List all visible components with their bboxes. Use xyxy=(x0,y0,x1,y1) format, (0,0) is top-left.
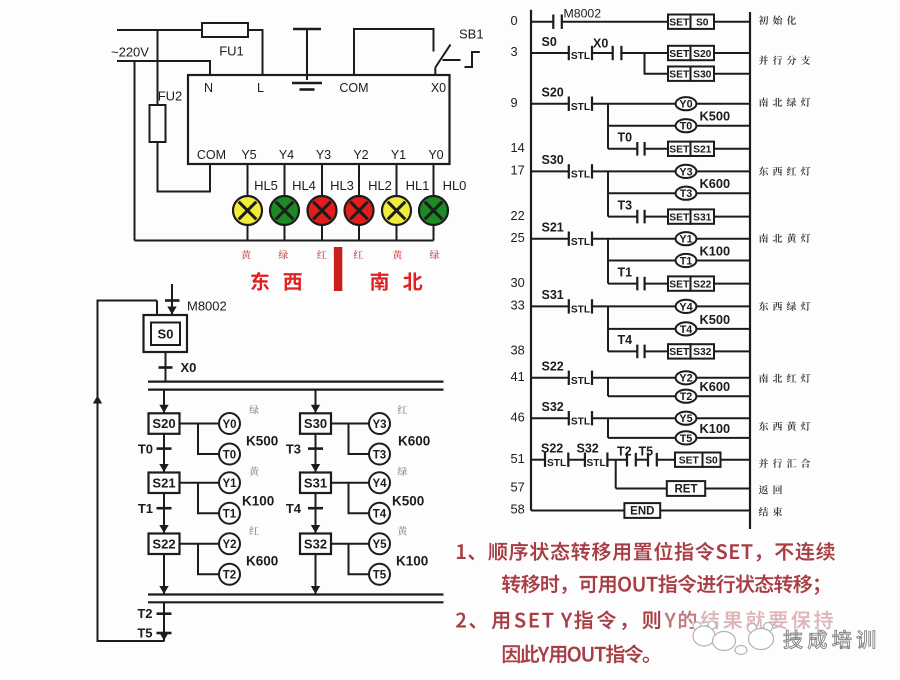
svg-text:T1: T1 xyxy=(618,265,633,279)
coil Y1 (sfc) xyxy=(219,472,240,493)
rung 33 STL S31 contact xyxy=(531,299,676,315)
svg-text:S22: S22 xyxy=(541,441,563,455)
label 南北 xyxy=(371,272,389,291)
ladder left power rail xyxy=(530,10,532,511)
wire S32 to coils xyxy=(331,544,369,575)
PLC box xyxy=(188,75,450,164)
svg-text:Y4: Y4 xyxy=(679,301,692,313)
svg-text:25: 25 xyxy=(511,230,525,245)
svg-text:S0: S0 xyxy=(542,35,557,49)
svg-text:K100: K100 xyxy=(700,421,731,436)
wire live tap to FU2 xyxy=(157,30,159,105)
svg-text:SET: SET xyxy=(669,70,690,81)
svg-text:T3: T3 xyxy=(680,188,693,200)
svg-text:K500: K500 xyxy=(700,312,731,327)
state S21 xyxy=(149,473,180,494)
ground symbol xyxy=(292,29,322,90)
svg-text:9: 9 xyxy=(511,95,518,110)
coil Y4 (ladder) xyxy=(676,300,750,314)
transition T1 xyxy=(157,493,172,534)
lamp HL1 yellow xyxy=(382,196,411,225)
wire split to S20 xyxy=(159,390,168,414)
svg-text:S0: S0 xyxy=(705,456,718,467)
svg-text:END: END xyxy=(630,506,654,518)
svg-text:COM: COM xyxy=(339,81,368,95)
label 黄 (S32) xyxy=(398,526,407,535)
comment 返回 xyxy=(759,485,768,494)
svg-text:SET: SET xyxy=(669,18,690,29)
coil Y5 (ladder) xyxy=(676,412,750,426)
svg-text:COM: COM xyxy=(197,148,226,162)
coil Y2 (sfc) xyxy=(219,533,240,554)
wire S21 to coils xyxy=(180,483,220,514)
comment 东西黄灯 xyxy=(759,422,768,431)
instruction SET S20 xyxy=(668,46,750,60)
svg-text:S21: S21 xyxy=(693,145,712,156)
lamp HL2 red xyxy=(345,196,374,225)
svg-text:S21: S21 xyxy=(542,220,564,234)
svg-text:M8002: M8002 xyxy=(187,299,227,314)
svg-text:T1: T1 xyxy=(680,255,693,267)
svg-text:S30: S30 xyxy=(693,70,712,81)
wires Y5..Y0 to lamps xyxy=(248,164,434,196)
coil Y3 (ladder) xyxy=(676,165,750,179)
coil T4 (ladder) xyxy=(608,306,750,335)
instruction END xyxy=(531,503,750,518)
state S31 xyxy=(300,473,331,494)
lamp HL0 green xyxy=(419,196,448,225)
label 黄 (lamp colour) xyxy=(241,250,250,259)
svg-text:SET: SET xyxy=(669,347,690,358)
lamp HL5 yellow xyxy=(233,196,262,225)
svg-text:T0: T0 xyxy=(680,121,693,133)
state S30 xyxy=(300,413,331,434)
svg-text:Y4: Y4 xyxy=(372,478,387,490)
rung 25 STL S21 contact xyxy=(531,232,676,248)
svg-text:T4: T4 xyxy=(618,333,633,347)
svg-text:3: 3 xyxy=(511,44,518,59)
svg-text:K600: K600 xyxy=(246,554,278,569)
state S32 xyxy=(300,534,331,555)
svg-text:X0: X0 xyxy=(181,360,197,375)
svg-text:S32: S32 xyxy=(542,400,564,414)
label 绿 (lamp colour) xyxy=(279,250,288,259)
svg-text:K600: K600 xyxy=(700,176,731,191)
wire AC neutral line to N terminal xyxy=(117,61,210,75)
fuse FU1 xyxy=(202,23,248,37)
fuse FU2 xyxy=(150,105,166,142)
svg-text:Y3: Y3 xyxy=(679,166,692,178)
svg-text:T5: T5 xyxy=(680,433,693,445)
coil Y0 (sfc) xyxy=(219,413,240,434)
svg-text:SET: SET xyxy=(669,49,690,60)
parallel merge double bar xyxy=(148,593,444,595)
svg-text:S32: S32 xyxy=(693,347,712,358)
svg-text:N: N xyxy=(204,81,213,95)
svg-text:K100: K100 xyxy=(700,244,731,259)
svg-text:T2: T2 xyxy=(223,569,236,581)
contact X0 (ladder) xyxy=(613,46,668,60)
wire S32 to merge bar xyxy=(311,554,320,595)
svg-text:S31: S31 xyxy=(304,475,327,490)
svg-text:STL: STL xyxy=(571,305,590,316)
watermark blobs xyxy=(660,602,850,655)
svg-text:STL: STL xyxy=(571,51,590,62)
svg-text:Y3: Y3 xyxy=(372,419,386,431)
note line 1 xyxy=(457,544,466,559)
label 黄 (lamp colour) xyxy=(393,250,402,259)
svg-text:STL: STL xyxy=(571,102,590,113)
coil T2 (sfc) xyxy=(219,564,240,585)
svg-text:S0: S0 xyxy=(158,327,174,342)
svg-text:Y1: Y1 xyxy=(222,478,237,490)
svg-text:T1: T1 xyxy=(138,501,153,516)
contact T1 with SET S22 xyxy=(608,261,750,291)
rung 9 STL S20 contact xyxy=(531,97,676,113)
svg-text:Y2: Y2 xyxy=(679,373,692,385)
svg-text:T0: T0 xyxy=(223,449,236,461)
lamp HL3 red xyxy=(308,196,337,225)
instruction SET S0 (rung 51) xyxy=(675,453,750,467)
svg-text:S20: S20 xyxy=(693,49,712,60)
svg-text:T3: T3 xyxy=(286,442,301,457)
svg-text:STL: STL xyxy=(547,458,566,469)
wire FU2 to bottom COM terminal xyxy=(158,142,211,192)
watermark 技成培训 xyxy=(784,630,875,649)
svg-text:38: 38 xyxy=(511,343,525,358)
svg-text:Y5: Y5 xyxy=(241,148,256,162)
rung 51 STL S22 contact xyxy=(531,453,585,469)
transition T4 xyxy=(308,493,323,534)
svg-text:S20: S20 xyxy=(152,416,175,431)
wire neutral tap to lamp bus xyxy=(134,61,136,241)
svg-text:S32: S32 xyxy=(304,536,327,551)
svg-text:T0: T0 xyxy=(138,442,153,457)
svg-text:41: 41 xyxy=(511,369,525,384)
rung 3 STL S0 contact xyxy=(531,46,613,62)
svg-text:K600: K600 xyxy=(700,379,731,394)
coil T0 (ladder) xyxy=(608,104,750,133)
rung 51 STL S32 contact xyxy=(585,453,627,469)
svg-text:Y5: Y5 xyxy=(679,413,692,425)
label 绿 (lamp colour) xyxy=(430,250,439,259)
svg-text:STL: STL xyxy=(571,416,590,427)
svg-text:X0: X0 xyxy=(431,81,446,95)
svg-text:Y2: Y2 xyxy=(222,539,236,551)
contact T5 (rung 51) xyxy=(648,453,675,467)
svg-text:T5: T5 xyxy=(373,569,387,581)
svg-text:STL: STL xyxy=(586,458,605,469)
comment 南北绿灯 xyxy=(759,98,768,107)
svg-text:K500: K500 xyxy=(700,109,731,124)
svg-text:STL: STL xyxy=(571,376,590,387)
svg-text:K600: K600 xyxy=(398,434,430,449)
comment 南北红灯 xyxy=(759,374,768,383)
svg-text:22: 22 xyxy=(511,208,525,223)
svg-text:T5: T5 xyxy=(639,444,654,458)
contact T2 (rung 51) xyxy=(627,453,648,467)
switch SB1 xyxy=(435,45,460,76)
contact T3 with SET S31 xyxy=(608,193,750,224)
coil T3 (sfc) xyxy=(369,444,390,465)
coil T5 (ladder) xyxy=(608,418,750,445)
rung 0 contact M8002 xyxy=(531,15,668,29)
svg-text:SET: SET xyxy=(669,145,690,156)
coil T2 (ladder) xyxy=(608,378,750,403)
svg-text:Y0: Y0 xyxy=(679,99,692,111)
wire S22 to coils xyxy=(180,544,220,575)
svg-text:S22: S22 xyxy=(542,359,564,373)
svg-text:HL5: HL5 xyxy=(254,178,278,193)
coil Y2 (ladder) xyxy=(676,371,750,385)
svg-text:S21: S21 xyxy=(152,475,175,490)
svg-text:SET: SET xyxy=(669,212,690,223)
state S0 (initial step) xyxy=(144,315,188,352)
wire S31 to coils xyxy=(331,483,369,514)
wire S22 to merge bar xyxy=(159,554,168,595)
pulse edge symbol at SB1 xyxy=(465,52,480,67)
coil Y5 (sfc) xyxy=(369,533,390,554)
svg-text:Y4: Y4 xyxy=(279,148,294,162)
svg-text:L: L xyxy=(257,81,264,95)
svg-text:HL2: HL2 xyxy=(368,178,392,193)
svg-text:Y5: Y5 xyxy=(372,539,387,551)
comment 并行汇合 xyxy=(759,458,768,467)
svg-text:T0: T0 xyxy=(618,131,633,145)
svg-text:T1: T1 xyxy=(223,508,237,520)
coil T5 (sfc) xyxy=(369,564,390,585)
svg-text:Y1: Y1 xyxy=(679,234,692,246)
svg-text:S22: S22 xyxy=(693,279,712,290)
rung 41 STL S22 contact xyxy=(531,371,676,387)
svg-text:SB1: SB1 xyxy=(459,27,484,42)
svg-text:T2: T2 xyxy=(680,391,693,403)
svg-text:T2: T2 xyxy=(617,444,632,458)
sfc tail wire with transitions T2 T5 xyxy=(157,602,172,641)
contact T0 with SET S21 xyxy=(608,126,750,156)
svg-text:S31: S31 xyxy=(693,212,712,223)
coil T4 (sfc) xyxy=(369,503,390,524)
branch wire to SET S30 xyxy=(645,53,669,74)
comment 结束 xyxy=(759,507,769,516)
comment 并行分支 xyxy=(759,55,768,64)
sfc return loop wire xyxy=(93,301,165,642)
svg-text:RET: RET xyxy=(675,484,698,496)
coil Y0 (ladder) xyxy=(676,97,750,111)
comment 南北黄灯 xyxy=(759,234,768,243)
svg-text:K500: K500 xyxy=(246,434,278,449)
note line 2 xyxy=(502,575,521,594)
instruction SET S30 xyxy=(668,67,750,81)
svg-text:HL3: HL3 xyxy=(330,178,354,193)
transition T3 xyxy=(308,434,323,473)
svg-text:T5: T5 xyxy=(137,626,152,641)
coil T3 (ladder) xyxy=(608,171,750,200)
svg-text:17: 17 xyxy=(511,163,525,178)
wire split to S30 xyxy=(311,390,320,414)
ladder right power rail xyxy=(749,12,751,529)
svg-text:T2: T2 xyxy=(137,606,152,621)
red divider bar xyxy=(334,247,342,291)
svg-text:M8002: M8002 xyxy=(564,7,602,21)
svg-text:S0: S0 xyxy=(696,18,709,29)
comment 初始化 xyxy=(759,16,769,25)
transition T0 xyxy=(157,434,172,473)
wire FU1 to L terminal xyxy=(248,30,263,75)
wires lamps to bus xyxy=(248,225,434,241)
svg-text:33: 33 xyxy=(511,298,525,313)
svg-text:SET: SET xyxy=(669,279,690,290)
contact T4 with SET S32 xyxy=(608,329,750,359)
coil T1 (ladder) xyxy=(608,239,750,268)
svg-text:14: 14 xyxy=(511,140,525,155)
wire COM(top) loop to switch SB1 xyxy=(354,29,434,75)
svg-text:S32: S32 xyxy=(577,441,599,455)
note line 3 xyxy=(456,612,466,627)
state S22 xyxy=(149,534,180,555)
svg-text:T3: T3 xyxy=(618,198,633,212)
label 绿 (S31) xyxy=(398,467,407,476)
svg-text:K500: K500 xyxy=(392,494,424,509)
svg-text:57: 57 xyxy=(511,480,525,495)
svg-text:Y3: Y3 xyxy=(316,148,331,162)
svg-text:0: 0 xyxy=(511,13,518,28)
svg-text:HL1: HL1 xyxy=(406,178,430,193)
svg-text:X0: X0 xyxy=(593,37,608,51)
sfc entry wire with M8002 transition xyxy=(165,284,180,315)
svg-text:HL4: HL4 xyxy=(292,178,316,193)
label 绿 (S20) xyxy=(249,405,258,414)
note line 4 xyxy=(503,645,520,663)
comment 东西绿灯 xyxy=(759,302,768,311)
svg-text:30: 30 xyxy=(511,275,525,290)
svg-text:~220V: ~220V xyxy=(111,45,149,60)
svg-text:T4: T4 xyxy=(373,508,387,520)
rung 17 STL S30 contact xyxy=(531,164,676,180)
svg-text:Y0: Y0 xyxy=(222,419,236,431)
svg-text:FU1: FU1 xyxy=(219,44,244,59)
svg-text:Y2: Y2 xyxy=(353,148,368,162)
svg-text:T3: T3 xyxy=(373,449,386,461)
instruction SET S0 xyxy=(668,15,750,29)
svg-text:SET: SET xyxy=(679,456,700,467)
svg-text:S20: S20 xyxy=(542,85,564,99)
coil Y1 (ladder) xyxy=(676,232,750,246)
label 红 (S22) xyxy=(249,526,258,535)
svg-text:Y1: Y1 xyxy=(391,148,406,162)
coil T0 (sfc) xyxy=(219,444,240,465)
label 红 (lamp colour) xyxy=(354,250,363,259)
svg-text:S30: S30 xyxy=(304,416,327,431)
svg-text:K100: K100 xyxy=(396,554,428,569)
coil Y4 (sfc) xyxy=(369,472,390,493)
wire AC live line to FU1 xyxy=(117,29,202,31)
label 黄 (S21) xyxy=(249,467,258,476)
label 红 (lamp colour) xyxy=(317,250,326,259)
wire S30 to coils xyxy=(331,424,369,455)
parallel split double bar xyxy=(148,381,444,383)
transition X0 xyxy=(159,352,173,382)
instruction RET xyxy=(616,460,750,496)
svg-text:STL: STL xyxy=(571,237,590,248)
state S20 xyxy=(149,413,180,434)
svg-text:58: 58 xyxy=(511,502,525,517)
wire S20 to coils xyxy=(180,424,220,455)
svg-text:Y0: Y0 xyxy=(428,148,443,162)
coil T1 (sfc) xyxy=(219,503,240,524)
svg-text:T4: T4 xyxy=(680,324,693,336)
lamp bus wire xyxy=(135,240,434,242)
svg-text:S22: S22 xyxy=(152,536,175,551)
label 红 (S30) xyxy=(398,405,407,414)
svg-text:S31: S31 xyxy=(542,288,564,302)
rung 46 STL S32 contact xyxy=(531,411,676,427)
lamp HL4 green xyxy=(270,196,299,225)
svg-text:S30: S30 xyxy=(542,153,564,167)
coil Y3 (sfc) xyxy=(369,413,390,434)
svg-text:46: 46 xyxy=(511,409,525,424)
label 东西 xyxy=(251,272,269,291)
svg-text:STL: STL xyxy=(571,170,590,181)
svg-text:T4: T4 xyxy=(286,501,302,516)
svg-text:K100: K100 xyxy=(242,494,274,509)
svg-text:HL0: HL0 xyxy=(443,178,467,193)
svg-text:51: 51 xyxy=(511,451,525,466)
comment 东西红灯 xyxy=(759,167,768,176)
svg-text:FU2: FU2 xyxy=(158,89,183,104)
